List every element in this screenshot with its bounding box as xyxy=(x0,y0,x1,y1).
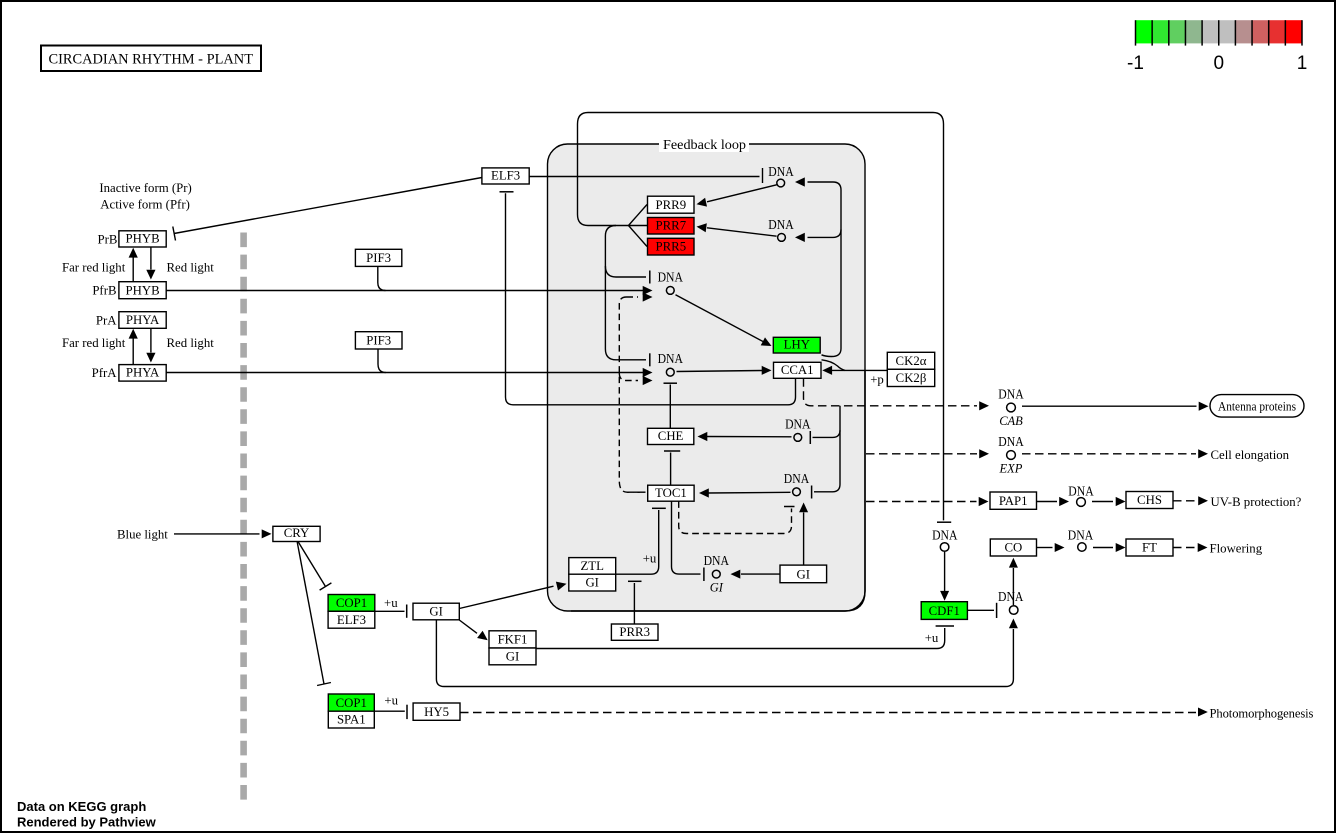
wire PHYB conversion down xyxy=(150,247,152,270)
arrowhead into Flowering xyxy=(1198,543,1208,552)
arrowhead into Photomorphogenesis xyxy=(1198,708,1208,717)
feedback loop gray region xyxy=(548,144,866,611)
gene CK2alpha xyxy=(887,352,934,369)
svg-text:CHE: CHE xyxy=(658,429,684,443)
svg-text:PRR9: PRR9 xyxy=(656,198,687,212)
gene PIF3 (upper) xyxy=(355,249,401,266)
arrowhead GI into ZTL/GI xyxy=(556,582,567,591)
svg-text:PRR5: PRR5 xyxy=(656,240,687,254)
svg-text:-1: -1 xyxy=(1127,53,1144,74)
svg-text:Red light: Red light xyxy=(167,336,215,350)
wire CCA1 up to feedback column xyxy=(822,360,846,371)
gene COP1 (down-regulated, with ELF3) xyxy=(328,595,375,612)
arrowhead into CRY xyxy=(262,529,272,538)
gene GI (outer) xyxy=(413,603,459,620)
svg-text:EXP: EXP xyxy=(999,462,1023,476)
svg-text:CCA1: CCA1 xyxy=(781,363,814,377)
dashed wire TOC1 to LHY-DNA / CCA1-DNA arrows xyxy=(619,297,645,492)
gene CRY xyxy=(273,526,320,541)
arrowhead into CAB DNA xyxy=(979,401,989,410)
arrowhead PAP1 to DNA xyxy=(1059,497,1069,506)
wire TOC1 DNA to TOC1 xyxy=(708,491,791,494)
wire ZTL/GI inhibits TOC1 xyxy=(616,510,659,574)
gene ZTL xyxy=(569,558,616,575)
dashed loop TOC1 to own DNA xyxy=(679,501,792,533)
gene PHYA (Pfr form) xyxy=(119,365,166,382)
gene ELF3 (complex) xyxy=(328,611,375,628)
wire CRY inhibits COP1/SPA1 xyxy=(297,542,324,684)
Feedback loop label xyxy=(659,137,749,153)
arrowhead dashed into LHY DNA xyxy=(643,292,653,301)
wire COP1/ELF3 inhibits GI xyxy=(375,610,405,612)
svg-text:PfrA: PfrA xyxy=(92,366,118,380)
gene PHYB (Pr form) xyxy=(119,231,166,247)
svg-text:1: 1 xyxy=(1297,53,1308,74)
gene FT xyxy=(1126,539,1173,556)
wire DNA to CCA1 xyxy=(677,371,763,372)
gene CHE xyxy=(648,428,694,444)
svg-text:PRR7: PRR7 xyxy=(656,219,687,233)
wire ELF3 inhibits PrB PHYB (diagonal) xyxy=(174,178,482,234)
arrowhead into TOC1 xyxy=(699,488,709,497)
gene HY5 xyxy=(413,703,460,720)
svg-text:+p: +p xyxy=(870,373,884,387)
svg-text:Blue light: Blue light xyxy=(117,527,168,541)
arrowhead GI into FKF1/GI xyxy=(477,631,488,641)
wire along gray bottom and right edge into CCA1 junction xyxy=(571,370,865,611)
dashed wire into TOC1 left xyxy=(627,491,646,493)
white loop path from PRR junction up over to CDF1 DNA tee xyxy=(578,113,944,521)
gray dashed membrane line xyxy=(240,233,247,802)
gene ELF3 xyxy=(482,168,529,184)
wire CAB DNA to Antenna proteins xyxy=(1022,405,1197,407)
gene COP1 (down-regulated, with SPA1) xyxy=(328,694,374,711)
svg-text:CHS: CHS xyxy=(1137,493,1162,507)
gene GI (complex with ZTL) xyxy=(569,574,616,591)
wire CO to its DNA xyxy=(1037,547,1053,549)
svg-text:GI: GI xyxy=(429,604,443,618)
diagonal DNA to PRR7 xyxy=(707,228,777,236)
svg-text:+u: +u xyxy=(384,596,398,610)
svg-text:ZTL: ZTL xyxy=(580,559,604,573)
svg-text:+u: +u xyxy=(643,552,657,566)
svg-text:COP1: COP1 xyxy=(336,696,367,710)
svg-text:LHY: LHY xyxy=(784,338,810,352)
wire PHYB conversion up xyxy=(132,258,134,282)
arrowhead into CDF1 xyxy=(940,591,949,601)
node DNA (GI gene) : DNA label xyxy=(704,553,729,595)
arrowhead into PAP1 xyxy=(979,497,989,506)
arrowhead into CHE xyxy=(698,432,708,441)
svg-text:DNA: DNA xyxy=(704,553,729,568)
arrowhead into PRR7 DNA xyxy=(795,233,805,242)
wire CDF1 DNA to CDF1 xyxy=(944,552,946,591)
wire CCA1 down-left to ELF3 tee xyxy=(506,193,796,405)
svg-text:PHYA: PHYA xyxy=(126,366,160,380)
svg-text:CO: CO xyxy=(1005,541,1023,555)
wire TOC1 to GI-DNA tee xyxy=(672,501,701,574)
node DNA (LHY gene) : DNA label xyxy=(658,269,683,294)
node DNA (EXP gene) : DNA label xyxy=(998,434,1023,476)
svg-text:HY5: HY5 xyxy=(424,705,449,719)
svg-text:DNA: DNA xyxy=(784,471,809,486)
arrowhead into Cell elongation xyxy=(1198,449,1208,458)
wire fan to PRR9/PRR7/PRR5 xyxy=(629,205,648,247)
svg-text:+u: +u xyxy=(384,694,398,708)
gene FKF1 xyxy=(489,631,536,648)
wire PHYA conversion up xyxy=(132,339,134,365)
arrowhead red light down (PHYB) xyxy=(146,270,155,280)
wire DNA to FT xyxy=(1093,547,1113,549)
svg-text:DNA: DNA xyxy=(1068,527,1093,542)
gene GI (inner) xyxy=(780,565,827,583)
svg-text:Rendered by Pathview: Rendered by Pathview xyxy=(17,815,157,830)
gene PAP1 xyxy=(990,492,1037,509)
arrowhead into CCA1 left xyxy=(762,366,772,375)
tee PRR3 inhibits ZTL/GI wire xyxy=(633,583,635,624)
arrowhead into PRR7 xyxy=(697,223,707,232)
dashed wire to EXP DNA xyxy=(866,453,977,455)
wire PIF3 upper joining PHYB line xyxy=(378,266,386,290)
arrowhead far red light up (PHYB) xyxy=(129,248,138,258)
wire PAP1 to its DNA xyxy=(1037,501,1058,503)
arrowhead into LHY xyxy=(761,337,772,346)
svg-text:GI: GI xyxy=(506,649,520,663)
svg-text:ELF3: ELF3 xyxy=(491,169,520,183)
tee at CHE DNA xyxy=(809,431,811,444)
gene CO xyxy=(990,539,1036,556)
svg-text:PrB: PrB xyxy=(97,233,117,247)
svg-text:DNA: DNA xyxy=(768,164,793,179)
wire DNA to LHY xyxy=(676,295,764,342)
gene PRR7 (up-regulated) xyxy=(648,218,695,235)
node Antenna proteins xyxy=(1210,395,1304,418)
dashed wire to PAP1 xyxy=(866,501,977,503)
node DNA (CHE gene) : DNA label xyxy=(785,416,810,441)
svg-text:Far red light: Far red light xyxy=(62,336,126,350)
arrowhead into CO xyxy=(1009,558,1018,568)
svg-text:GI: GI xyxy=(710,581,724,595)
arrowhead dashed into CCA1 DNA xyxy=(643,376,653,385)
svg-text:Cell elongation: Cell elongation xyxy=(1211,448,1290,462)
svg-text:0: 0 xyxy=(1214,53,1225,74)
arrowhead into Antenna proteins xyxy=(1199,402,1209,411)
wire COP1/SPA1 inhibits HY5 xyxy=(374,710,405,712)
gene PRR5 (up-regulated) xyxy=(648,238,695,255)
gene GI (complex with FKF1) xyxy=(489,648,536,665)
wire PfrB PHYB to LHY DNA xyxy=(166,290,644,292)
arrowhead CO to DNA xyxy=(1055,543,1065,552)
wire loop feedback to PRR9 DNA xyxy=(808,182,842,357)
svg-text:PIF3: PIF3 xyxy=(366,251,391,265)
arrowhead into GI DNA xyxy=(731,570,741,579)
wire DNA to CHS xyxy=(1092,501,1113,503)
svg-text:Antenna proteins: Antenna proteins xyxy=(1218,399,1296,413)
dashed wire HY5 to Photomorphogenesis xyxy=(460,712,1196,714)
wire FKF1/GI +u inhibits CDF1 xyxy=(536,628,945,649)
arrowhead into FT xyxy=(1116,543,1126,552)
svg-text:TOC1: TOC1 xyxy=(655,486,687,500)
node DNA (PRR9 gene) xyxy=(768,164,793,187)
svg-text:CIRCADIAN RHYTHM - PLANT: CIRCADIAN RHYTHM - PLANT xyxy=(49,52,254,68)
arrowhead into UV-B protection xyxy=(1198,496,1208,505)
svg-text:SPA1: SPA1 xyxy=(337,713,366,727)
svg-text:DNA: DNA xyxy=(932,527,957,542)
wire CCA1 dashed to CAB DNA xyxy=(804,378,978,406)
arrowhead PHYA into CCA1 DNA xyxy=(643,368,653,377)
svg-text:Flowering: Flowering xyxy=(1210,542,1263,556)
svg-text:CK2α: CK2α xyxy=(896,354,927,368)
arrowhead into CHS xyxy=(1116,497,1126,506)
gene PHYB (Pfr form) xyxy=(119,282,166,299)
svg-text:DNA: DNA xyxy=(998,387,1023,402)
wire CO DNA up to CO xyxy=(1012,568,1014,605)
svg-text:PHYA: PHYA xyxy=(126,313,160,327)
wire CHE DNA to CHE xyxy=(706,436,792,438)
svg-text:PHYB: PHYB xyxy=(126,283,160,297)
tee at TOC1 DNA xyxy=(811,486,813,499)
arrowhead into PRR9 DNA xyxy=(795,177,805,186)
svg-text:Data on KEGG graph: Data on KEGG graph xyxy=(17,799,146,814)
arrowhead CK2 +p into CCA1 xyxy=(822,366,832,375)
gene CCA1 xyxy=(774,362,822,378)
dashed wire CHS to UV-B protection xyxy=(1173,500,1196,502)
svg-text:Feedback loop: Feedback loop xyxy=(663,137,746,152)
gene TOC1 xyxy=(648,485,694,501)
svg-text:Active form (Pfr): Active form (Pfr) xyxy=(100,198,190,212)
arrowhead into PRR9 xyxy=(697,198,708,207)
dashed wire EXP DNA to Cell elongation xyxy=(1022,453,1196,455)
svg-text:PRR3: PRR3 xyxy=(619,625,650,639)
svg-text:CAB: CAB xyxy=(999,414,1023,428)
svg-text:PHYB: PHYB xyxy=(126,232,160,246)
node DNA (CHS gene) xyxy=(1068,484,1093,507)
svg-text:FT: FT xyxy=(1142,541,1157,555)
gene PRR9 xyxy=(648,196,695,213)
node DNA (CCA1 gene) : DNA label xyxy=(658,351,683,376)
svg-text:DNA: DNA xyxy=(785,416,810,431)
svg-text:PfrB: PfrB xyxy=(92,284,116,298)
svg-text:DNA: DNA xyxy=(658,351,683,366)
svg-text:DNA: DNA xyxy=(658,269,683,284)
gene PHYA (Pr form) xyxy=(119,312,166,329)
wire GI up to TOC1 DNA xyxy=(803,513,805,566)
gene CHS xyxy=(1126,492,1173,509)
wire GI to ZTL/GI xyxy=(459,586,553,608)
gene PRR3 xyxy=(611,624,658,640)
svg-text:Far red light: Far red light xyxy=(62,261,126,275)
arrowhead PHYB into LHY DNA xyxy=(643,286,653,295)
svg-text:GI: GI xyxy=(585,576,599,590)
svg-text:ELF3: ELF3 xyxy=(337,613,366,627)
wire branch down to CHE DNA and TOC1 DNA tees xyxy=(814,406,840,492)
wire Blue light to CRY xyxy=(174,533,260,535)
svg-text:DNA: DNA xyxy=(998,434,1023,449)
svg-text:Red light: Red light xyxy=(167,261,215,275)
color key gradient bar xyxy=(1127,20,1307,74)
arrowhead GI into CO DNA xyxy=(1009,619,1018,629)
wire PHYA conversion down xyxy=(150,328,152,352)
gene PIF3 (lower) xyxy=(355,332,402,349)
wire PIF3 lower joining PHYA line xyxy=(378,349,386,373)
wire GI to own DNA xyxy=(741,573,780,575)
svg-text:GI: GI xyxy=(797,567,811,581)
svg-text:PrA: PrA xyxy=(96,314,117,328)
wire GI long line to CDF1-CO DNA xyxy=(436,620,1013,687)
diagonal DNA to PRR9 xyxy=(707,185,777,202)
tee TOC1 inhibits CHE xyxy=(670,453,672,485)
svg-text:DNA: DNA xyxy=(768,217,793,232)
node DNA (CDF1 gene) xyxy=(932,527,957,551)
svg-text:+u: +u xyxy=(925,631,939,645)
svg-text:DNA: DNA xyxy=(1068,484,1093,499)
node DNA (PRR7 gene) xyxy=(768,217,793,241)
wire CK2 +p to CCA1 xyxy=(830,369,887,371)
node DNA (FT gene) xyxy=(1068,527,1093,551)
svg-text:UV-B protection?: UV-B protection? xyxy=(1211,495,1302,509)
arrowhead into EXP DNA xyxy=(979,449,989,458)
wire loop feedback to PRR7 DNA xyxy=(808,230,842,238)
svg-text:CRY: CRY xyxy=(284,526,310,540)
svg-text:PAP1: PAP1 xyxy=(999,494,1028,508)
svg-text:Photomorphogenesis: Photomorphogenesis xyxy=(1210,707,1314,721)
svg-text:FKF1: FKF1 xyxy=(498,633,528,647)
node DNA (CAB gene) : DNA label xyxy=(998,387,1023,429)
wire CDF1 inhibits CO DNA xyxy=(967,609,994,611)
wire CRY inhibits COP1/ELF3 xyxy=(298,542,326,587)
gene SPA1 xyxy=(328,711,374,728)
gene CDF1 (down-regulated) xyxy=(921,602,967,620)
gene CK2beta xyxy=(887,369,934,386)
wire PRR junction down to tees at LHY-DNA and CCA1-DNA xyxy=(605,226,646,360)
node DNA (CO gene) xyxy=(998,589,1023,614)
wire GI to FKF1/GI xyxy=(459,620,477,633)
wire ELF3 tee to PRR9 DNA xyxy=(529,176,759,178)
svg-text:DNA: DNA xyxy=(998,589,1023,604)
gene LHY (down-regulated) xyxy=(773,337,820,353)
arrowhead GI into TOC1 DNA xyxy=(799,503,808,513)
arrowhead red light down (PHYA) xyxy=(146,353,155,363)
tee CHE inhibits CCA1 DNA xyxy=(664,382,678,384)
dashed wire FT to Flowering xyxy=(1173,547,1196,549)
node DNA (TOC1 gene) : DNA label xyxy=(784,471,809,496)
svg-text:CK2β: CK2β xyxy=(896,371,927,385)
title box CIRCADIAN RHYTHM - PLANT xyxy=(41,46,261,72)
svg-text:CDF1: CDF1 xyxy=(929,604,960,618)
wire PfrA PHYA to CCA1 DNA xyxy=(166,372,644,374)
svg-text:COP1: COP1 xyxy=(336,596,367,610)
svg-text:Inactive form (Pr): Inactive form (Pr) xyxy=(99,181,191,195)
svg-text:PIF3: PIF3 xyxy=(366,334,391,348)
arrowhead far red light up (PHYA) xyxy=(129,329,138,339)
